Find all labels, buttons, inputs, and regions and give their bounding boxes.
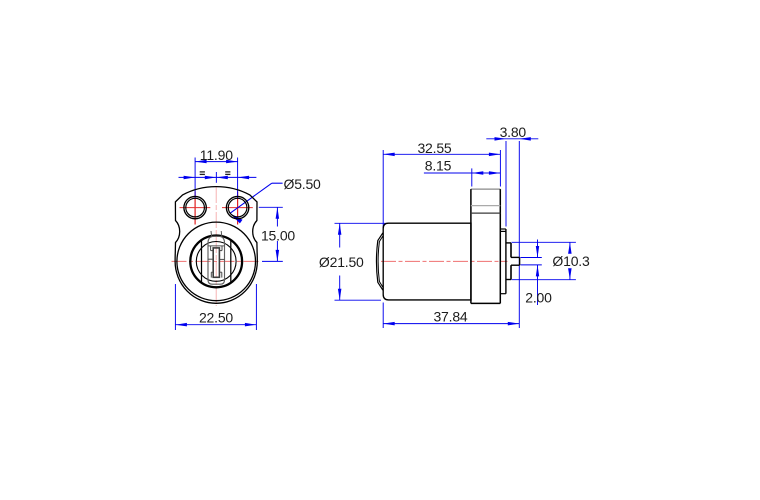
svg-text:37.84: 37.84 <box>433 308 467 324</box>
svg-text:11.90: 11.90 <box>200 147 233 163</box>
svg-text:8.15: 8.15 <box>425 157 452 173</box>
svg-text:15.00: 15.00 <box>261 227 295 243</box>
svg-text:3.80: 3.80 <box>500 124 527 140</box>
svg-text:Ø5.50: Ø5.50 <box>284 176 322 192</box>
svg-text:22.50: 22.50 <box>199 310 233 326</box>
svg-text:2.00: 2.00 <box>525 290 552 306</box>
svg-text:Ø21.50: Ø21.50 <box>319 254 364 270</box>
svg-text:Ø10.3: Ø10.3 <box>552 253 590 269</box>
svg-text:32.55: 32.55 <box>417 140 451 156</box>
